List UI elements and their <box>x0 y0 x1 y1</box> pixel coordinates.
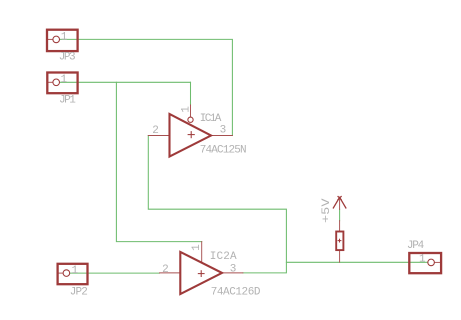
svg-text:JP3: JP3 <box>59 52 76 64</box>
svg-text:JP2: JP2 <box>70 286 88 298</box>
svg-text:3: 3 <box>220 125 227 137</box>
svg-text:2: 2 <box>152 125 159 137</box>
svg-text:74AC125N: 74AC125N <box>200 144 247 156</box>
svg-text:1: 1 <box>180 106 192 113</box>
svg-text:1: 1 <box>419 253 426 265</box>
svg-text:74AC126D: 74AC126D <box>211 286 261 298</box>
svg-text:1: 1 <box>61 31 68 43</box>
svg-text:IC2A: IC2A <box>210 251 237 263</box>
svg-text:1: 1 <box>72 265 79 277</box>
svg-text:3: 3 <box>230 263 237 275</box>
svg-text:JP1: JP1 <box>59 95 76 107</box>
svg-text:+5V: +5V <box>321 198 333 223</box>
svg-text:JP4: JP4 <box>407 240 425 252</box>
svg-text:1: 1 <box>191 244 203 251</box>
svg-text:IC1A: IC1A <box>200 113 222 125</box>
svg-text:2: 2 <box>162 264 169 276</box>
svg-text:1: 1 <box>61 74 68 86</box>
